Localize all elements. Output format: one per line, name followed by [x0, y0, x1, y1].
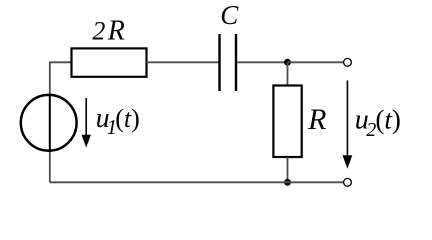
label 2R — [92, 16, 124, 47]
node B (bottom junction dot) — [284, 179, 291, 186]
node A (top junction dot) — [284, 59, 291, 66]
svg-text:R: R — [107, 16, 125, 47]
arrow u1 — [82, 98, 91, 148]
svg-text:(t): (t) — [375, 104, 401, 134]
wire: bottom rail — [50, 181, 344, 183]
source U1 (circle symbol) — [21, 95, 77, 151]
svg-text:(t): (t) — [115, 104, 140, 133]
label u1(t) — [96, 103, 140, 139]
wire: 2R to capacitor — [147, 61, 219, 63]
arrow u2 — [343, 81, 353, 169]
wire through source — [49, 94, 51, 152]
wire: node A to top terminal — [288, 61, 344, 63]
wire: capacitor to node A — [237, 61, 288, 63]
svg-text:C: C — [220, 0, 239, 30]
wire: top rail left segment (corner to resistor 2R) — [50, 62, 72, 182]
svg-text:R: R — [307, 103, 326, 136]
resistor 2R — [72, 48, 147, 76]
wire: node A down to resistor R — [287, 62, 289, 85]
capacitor C — [220, 34, 237, 91]
label u2(t) — [355, 104, 401, 141]
svg-text:2: 2 — [92, 16, 105, 45]
terminal top (open circle) — [344, 58, 352, 66]
terminal bottom (open circle) — [344, 178, 352, 186]
resistor R — [273, 86, 301, 158]
wire: resistor R to node B — [287, 157, 289, 182]
